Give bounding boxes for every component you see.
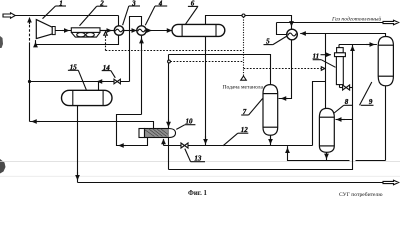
- heat exchanger 3: [114, 26, 123, 35]
- label 12: [223, 133, 248, 146]
- svg-text:12: 12: [241, 126, 249, 134]
- svg-text:14: 14: [103, 64, 111, 72]
- svg-text:5: 5: [266, 38, 270, 46]
- heat exchanger 4: [137, 26, 146, 35]
- svg-text:Газ подготовленный: Газ подготовленный: [331, 16, 381, 23]
- product hollow arrow: [383, 20, 399, 25]
- wire: methanol dashed branch L2: [170, 61, 243, 63]
- wire: compressor discharge: [55, 30, 71, 32]
- wire: HX3 to HX4: [124, 30, 137, 32]
- wire: main right riser: [169, 45, 353, 170]
- separator 6: [172, 24, 225, 36]
- wire: separator 7 bottoms to header: [270, 135, 272, 145]
- scan artifact left edge upper: [0, 36, 3, 48]
- wire: vessel 8 bottoms: [326, 152, 328, 160]
- wire: HX3 bottom return line: [36, 35, 119, 44]
- filter 11: [335, 45, 346, 88]
- valve 13: [181, 143, 188, 148]
- svg-text:13: 13: [194, 155, 202, 163]
- wire: methanol dashed branch L3: [244, 68, 322, 70]
- drum 15: [62, 90, 113, 105]
- wire: separator 6 overhead line to HX5: [206, 16, 292, 30]
- valve 14: [114, 79, 120, 84]
- wire: HX10 top right feed: [168, 55, 170, 129]
- wire: adsorber 9 bottom line: [385, 86, 387, 161]
- wire: separator 6 liquid to separator 7 top: [169, 55, 271, 85]
- svg-text:15: 15: [70, 64, 78, 72]
- label 11: [313, 55, 336, 68]
- label 4: [145, 6, 167, 25]
- vessel 8: [319, 108, 334, 152]
- svg-text:8: 8: [345, 98, 349, 106]
- svg-text:1: 1: [59, 0, 63, 7]
- label 1: [43, 6, 67, 19]
- svg-text:Фиг. 1: Фиг. 1: [188, 190, 207, 197]
- node: methanol tap on overhead line: [242, 14, 245, 17]
- inlet hollow arrow: [3, 13, 15, 18]
- label 3: [123, 6, 140, 25]
- wire: line into adsorber 9: [339, 44, 377, 46]
- separator 7: [263, 85, 278, 136]
- svg-text:6: 6: [191, 0, 195, 8]
- wire: letdown line from U to valve 14 and drum 15: [30, 81, 130, 83]
- node: junction on recycle riser: [28, 80, 31, 83]
- label 13: [185, 149, 205, 162]
- wire: separator 6 bottoms down to liquid header: [205, 36, 207, 145]
- svg-text:Подача метанола: Подача метанола: [223, 85, 264, 91]
- svg-text:7: 7: [243, 108, 247, 116]
- label 14: [102, 71, 116, 78]
- wire: LPG product line: [78, 182, 384, 184]
- wire: recycle riser: [29, 45, 31, 122]
- label 6: [186, 6, 199, 24]
- wire: HX5 side loop to product line: [277, 23, 287, 35]
- wire: product gas line: [277, 22, 384, 24]
- wire: HX3 shell down from inlet line: [118, 16, 120, 26]
- wire: inlet gas line: [15, 15, 118, 17]
- svg-text:СУГ потребителю: СУГ потребителю: [339, 191, 383, 198]
- label 2: [80, 6, 108, 26]
- wire: HX4 cold inlet from below: [141, 36, 143, 115]
- wire: methanol dashed header L1: [106, 50, 244, 52]
- label 10: [176, 125, 195, 130]
- compressor 1: [36, 20, 55, 39]
- label 7: [241, 99, 262, 116]
- wire: HX4 to separator 6: [146, 30, 172, 32]
- wire: riser into compressor suction: [35, 42, 37, 44]
- label 8: [334, 105, 354, 113]
- adsorber 9: [378, 37, 393, 86]
- scan artifact left edge lower: [0, 159, 6, 174]
- wire: HX10 gas return line: [30, 122, 154, 129]
- wire: HX10 bottom feed stub: [163, 139, 165, 146]
- wire: adsorber 9 overhead to HX5: [300, 34, 385, 39]
- wire: HX10 bottom right outlet: [168, 138, 170, 170]
- wire: HX10 bottom left to vapor leg: [117, 115, 148, 146]
- wire: cooler outlet to HX3: [100, 30, 115, 32]
- wire: inverted U over HX4: [130, 17, 142, 82]
- faint scan band: [0, 161, 400, 163]
- wire: drum 15 bottoms to LPG line: [77, 106, 79, 183]
- node: methanol tap on liquid line: [168, 60, 171, 63]
- wire: liquid header line 12: [164, 145, 313, 147]
- label 5: [264, 36, 288, 45]
- wire: HX5 bottom to separator 7: [279, 40, 292, 99]
- wire: jog branch to liquid header: [313, 82, 326, 146]
- svg-text:9: 9: [369, 98, 373, 106]
- svg-text:11: 11: [313, 52, 320, 60]
- wire: methanol manifold dotted riser: [243, 17, 245, 76]
- svg-text:2: 2: [99, 0, 104, 8]
- wire: bottoms header of 8 and 9: [288, 146, 350, 160]
- wire: riser up-arrow at junction: [352, 46, 354, 51]
- heat exchanger 5: [287, 29, 298, 40]
- svg-text:3: 3: [131, 0, 136, 8]
- label 15: [68, 70, 86, 90]
- valve on filter 11 drain: [340, 85, 353, 90]
- wire: feed line down to vessel 8: [325, 34, 327, 109]
- methanol supply symbol: [241, 76, 247, 80]
- svg-text:4: 4: [158, 0, 163, 8]
- svg-text:10: 10: [186, 118, 194, 126]
- air cooler 2: [71, 28, 100, 37]
- LPG hollow arrow: [383, 180, 399, 185]
- heat exchanger 10: [139, 129, 176, 138]
- wire: vessel 8 side feed from riser: [336, 119, 353, 121]
- label 9: [360, 82, 374, 105]
- methanol dashed riser to cooler outlet: [105, 35, 107, 50]
